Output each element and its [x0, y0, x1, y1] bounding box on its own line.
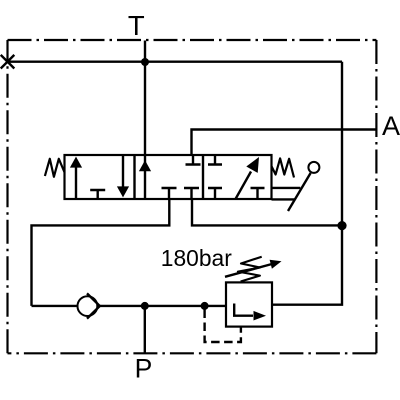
- wire T port stub to valve: [144, 41, 146, 156]
- valve position divider 1: [133, 155, 135, 199]
- wire valve to relief junction: [192, 199, 342, 225]
- wire A line: [192, 130, 376, 156]
- spring left: [45, 159, 65, 177]
- manual lever knob: [308, 162, 319, 173]
- enclosure boundary top edge (dash-dot): [8, 39, 377, 41]
- wire P rail left of check valve: [32, 305, 78, 307]
- relief valve adjustment arrow: [225, 264, 272, 277]
- node relief outlet junction: [337, 221, 346, 230]
- relief valve pilot line (dashed): [205, 310, 241, 343]
- wire T rail: [8, 61, 343, 63]
- manual lever linkage: [272, 188, 301, 200]
- center position: blocked bottom port 2: [184, 188, 199, 199]
- right position: blocked bottom port 2: [251, 188, 265, 199]
- left position: flow arrow down: [122, 155, 124, 187]
- plugged port X on envelope: [1, 55, 15, 69]
- spring right: [272, 158, 295, 177]
- manual lever arm: [288, 173, 311, 211]
- enclosure boundary bottom edge (dash-dot): [8, 352, 377, 354]
- svg-text:P: P: [135, 354, 153, 384]
- svg-text:180bar: 180bar: [161, 245, 232, 271]
- check valve CV1 ball: [78, 296, 98, 316]
- right position: proportional flow arrow: [236, 172, 252, 200]
- wire valve to check-valve loop: [32, 199, 170, 306]
- enclosure boundary right edge (dash-dot): [375, 40, 377, 353]
- wire P port stub: [144, 306, 146, 353]
- relief valve adjustable spring: [238, 257, 262, 282]
- enclosure boundary left edge (dash-dot): [6, 40, 8, 353]
- relief valve RV1 body: [226, 282, 272, 326]
- relief valve flow path arrow: [234, 304, 253, 316]
- left position: flow arrow up: [75, 167, 77, 200]
- valve position divider 2: [202, 155, 204, 199]
- wire T drop to relief junction: [341, 62, 343, 226]
- wire P rail: [100, 305, 226, 307]
- center position: blocked bottom port 1: [162, 188, 177, 199]
- center position: blocked A port: [186, 155, 201, 165]
- wire junction to relief valve outlet: [272, 226, 342, 305]
- svg-text:T: T: [128, 10, 145, 41]
- left position: blocked port: [90, 190, 105, 199]
- directional valve V1 body: [65, 155, 272, 199]
- node T junction: [141, 58, 149, 66]
- node pilot junction: [201, 302, 209, 310]
- right position: blocked top port: [208, 155, 222, 165]
- node P junction: [141, 302, 149, 310]
- svg-text:A: A: [382, 111, 400, 141]
- center position: open center P-T passage: [144, 155, 146, 199]
- right position: blocked bottom port 1: [208, 188, 222, 199]
- check valve CV1 seat: [87, 293, 100, 318]
